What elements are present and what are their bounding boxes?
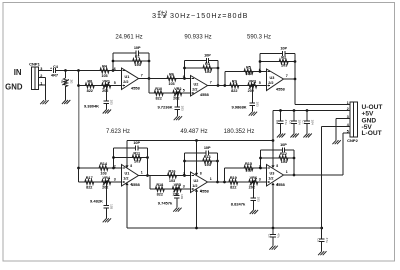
svg-text:R14: R14: [100, 162, 108, 166]
pin 2 CNP2: [347, 107, 349, 111]
wire feedback cap branch S3B: [261, 149, 295, 151]
svg-text:103: 103: [180, 194, 184, 199]
pin 3 U3 S3B: [259, 177, 261, 181]
node bypass C7: [306, 109, 309, 112]
wire R10 to VR2: [165, 92, 172, 94]
resistor R2 feedback S3T: [279, 56, 288, 68]
ground below VR cap S1T: [103, 110, 111, 114]
capacitor VR-gnd S1B: [104, 204, 114, 209]
svg-text:2: 2: [259, 164, 261, 168]
wire U3B power down: [272, 185, 274, 228]
svg-text:R9: R9: [232, 79, 237, 83]
pin 3 CNP2: [347, 115, 349, 119]
node feedback-R left S2T: [183, 67, 186, 70]
svg-text:9.3804K: 9.3804K: [84, 103, 99, 108]
label computed resistance S1B: [90, 199, 103, 204]
wire feedback left vertical U3 stage S3B: [260, 150, 262, 168]
svg-text:103: 103: [257, 197, 261, 202]
svg-text:R18: R18: [156, 183, 163, 187]
wire into R6 S2T: [160, 78, 166, 80]
trimmer VR2: [172, 87, 184, 101]
resistor R14 S1B: [97, 162, 110, 176]
wire wiper to capacitor S1T: [105, 86, 107, 102]
node -5V U3B: [272, 227, 275, 230]
pin 6 U1 S1T: [114, 67, 116, 71]
svg-text:3: 3: [347, 115, 349, 119]
wire U1B output: [139, 175, 167, 177]
wire U2B power up: [196, 141, 198, 174]
svg-text:4558: 4558: [276, 86, 286, 91]
svg-text:R8: R8: [87, 79, 92, 83]
node feedback-input S2B: [183, 174, 186, 177]
node +5V U3B: [272, 139, 275, 142]
wire feedback right vertical S3T: [294, 54, 296, 80]
svg-text:R15: R15: [245, 162, 252, 166]
svg-text:C4: C4: [53, 64, 59, 69]
svg-text:4558: 4558: [131, 85, 141, 90]
resistor R11 feedback S1B: [132, 152, 141, 164]
wire U2 output: [208, 85, 229, 87]
wire input vertical to lower row: [78, 71, 80, 169]
ground below VR cap S1B: [103, 218, 111, 222]
svg-text:C9: C9: [316, 238, 320, 242]
capacitor C4: [50, 64, 59, 77]
pin 6 U3 S3T: [259, 68, 261, 72]
pin 2 U2 S2B: [183, 172, 185, 176]
svg-text:103: 103: [256, 102, 260, 107]
svg-text:10P: 10P: [133, 141, 140, 145]
svg-text:822: 822: [87, 89, 93, 93]
capacitor feedback 10P S2T: [204, 53, 211, 63]
wire U1B power down: [126, 185, 128, 228]
label GND CNP2: [362, 117, 377, 124]
svg-text:R17: R17: [86, 176, 93, 180]
wire VR3 wiper to cap: [251, 86, 253, 104]
wire L-OUT to CNP2 pin5: [343, 132, 350, 134]
svg-text:R19: R19: [230, 176, 237, 180]
svg-text:103: 103: [134, 160, 140, 164]
svg-text:9.482K: 9.482K: [90, 199, 103, 204]
svg-text:GND: GND: [5, 83, 23, 92]
pin 1 CNP2: [347, 101, 349, 105]
wire feedback cap branch S3T: [260, 53, 295, 55]
node VR5 wiper: [175, 188, 178, 191]
svg-text:U1: U1: [124, 172, 129, 176]
wire S2 to ground: [65, 86, 67, 100]
svg-text:6: 6: [183, 75, 185, 79]
svg-text:10P: 10P: [280, 143, 287, 147]
trimmer VR4 S1B: [101, 176, 113, 190]
node feedback-R right S2B: [216, 160, 219, 163]
wire GND from CNP2 pin3: [336, 119, 350, 141]
svg-text:C7: C7: [302, 120, 306, 124]
wire R4 to op-amp S1T: [110, 70, 122, 72]
wire into R16 S2B: [161, 175, 167, 177]
svg-text:U3: U3: [269, 76, 274, 80]
capacitor below VR3: [250, 102, 260, 107]
wire feedback cap branch S2T: [185, 60, 219, 62]
capacitor feedback 10P S3B: [280, 143, 287, 153]
svg-text:R12: R12: [280, 152, 287, 156]
pin 7 U1 S1T: [141, 73, 143, 77]
pin 2 U1 S1B: [114, 164, 116, 168]
wire rail cap C8 to ground: [272, 237, 274, 246]
svg-text:103: 103: [135, 63, 141, 67]
wire VR5 wiper to cap: [176, 189, 178, 196]
ground below VR6 cap: [250, 210, 258, 214]
wire rail cap C9 to ground: [321, 242, 323, 252]
trimmer VR5: [171, 183, 183, 197]
wire U-OUT vertical: [294, 79, 296, 105]
svg-text:4558: 4558: [131, 182, 141, 187]
ground C9: [318, 251, 326, 255]
svg-text:R7: R7: [135, 55, 140, 59]
svg-text:7: 7: [141, 73, 143, 77]
svg-text:R16: R16: [169, 169, 176, 173]
ground CNP1: [40, 100, 48, 104]
op-amp U1 2/2 S1T: [122, 68, 141, 90]
svg-text:R2: R2: [281, 56, 286, 60]
wire feedback cap branch S1T: [113, 52, 149, 54]
svg-text:2/2: 2/2: [268, 81, 273, 85]
pin 1 U3 S3B: [286, 170, 288, 174]
node feedback-input S3B: [259, 167, 262, 170]
svg-text:1: 1: [141, 170, 143, 174]
wire +5V rail: [127, 140, 273, 142]
resistor R8 S1T: [84, 79, 96, 93]
resistor R19: [229, 176, 238, 190]
wire feedback left vertical U1 stage S1B: [113, 148, 115, 168]
wire into R4 S1T: [93, 70, 99, 72]
wire cap to ground VR5: [176, 198, 178, 208]
wire input to R8: [79, 85, 85, 87]
wire R17 to VR4 S1B: [96, 181, 101, 183]
wire C4 to input node: [56, 70, 99, 72]
wire bypass cap C7 to ground: [306, 124, 308, 134]
svg-text:VR5: VR5: [174, 183, 181, 187]
wire jog up to R5: [225, 72, 243, 86]
svg-text:103: 103: [205, 163, 211, 167]
wire CNP1 pin2 stub: [39, 78, 46, 86]
wire feedback right vertical S1T: [148, 53, 150, 79]
svg-text:4: 4: [130, 183, 132, 187]
wire R19 run: [228, 181, 248, 183]
wire L-OUT horizontal: [294, 174, 343, 176]
wire feedback left vertical U1 stage S1T: [112, 53, 114, 71]
wire L-OUT vertical: [342, 133, 344, 175]
svg-text:R6: R6: [169, 72, 174, 76]
svg-text:8: 8: [130, 164, 132, 168]
wire feedback resistor branch S2T: [185, 67, 219, 69]
wire feedback right vertical S2T: [217, 61, 219, 86]
wire R15 to U3B pin2: [254, 167, 267, 169]
svg-text:202: 202: [173, 96, 179, 100]
wire U2B output: [208, 181, 228, 183]
wire U1B power up: [126, 141, 128, 166]
wire VR6 to U3B pin3: [259, 181, 267, 183]
pin 3 CNP1: [40, 67, 42, 71]
svg-text:2G: 2G: [69, 79, 73, 84]
svg-text:VR6: VR6: [250, 176, 257, 180]
svg-text:VR1: VR1: [103, 79, 110, 83]
capacitor below VR6: [251, 197, 261, 202]
wire jog up to R15: [225, 168, 244, 182]
node feedback-R right S2T: [217, 67, 220, 70]
pin 6 U2 S2T: [183, 75, 185, 79]
wire VR2 to U2 pin5: [183, 92, 191, 94]
svg-text:C6: C6: [289, 120, 293, 124]
resistor R4 S1T: [99, 64, 110, 78]
pin 4 CNP2: [347, 123, 349, 127]
svg-text:3: 3: [152, 11, 156, 20]
wire VR2 wiper to cap: [176, 93, 178, 107]
svg-text:104: 104: [297, 120, 301, 125]
svg-text:R10: R10: [155, 87, 162, 91]
wire drop to R18: [150, 176, 154, 190]
svg-text:103: 103: [205, 70, 211, 74]
capacitor feedback 10P S1B: [133, 141, 140, 151]
node feedback-output S3T: [294, 78, 297, 81]
pin 1 U1 S1B: [141, 170, 143, 174]
svg-text:103: 103: [169, 179, 175, 183]
node feedback-input S1B: [112, 167, 115, 170]
wire U1 out to R10 drop: [148, 79, 150, 94]
svg-text:3: 3: [114, 177, 116, 181]
svg-text:103: 103: [281, 160, 287, 164]
pin 5 U3 S3T: [259, 81, 261, 85]
svg-text:10P: 10P: [204, 53, 211, 57]
pin 2 CNP1: [40, 74, 42, 78]
wire VR1 to op-amp S1T: [112, 85, 122, 87]
wire feedback right vertical S2B: [217, 153, 219, 182]
wire +5V from CNP2: [273, 111, 350, 166]
label 90.933 Hz: [184, 35, 211, 41]
svg-text:6: 6: [114, 67, 116, 71]
node feedback-output S1T: [148, 77, 151, 80]
wire U-OUT to CNP2 pin1: [295, 104, 350, 106]
svg-text:IN: IN: [14, 68, 22, 77]
svg-text:104: 104: [310, 120, 314, 125]
svg-text:47u: 47u: [284, 120, 288, 125]
svg-text:4: 4: [200, 189, 202, 193]
svg-text:2/2: 2/2: [192, 88, 197, 92]
wire VR3 to U3 pin5: [258, 85, 267, 87]
wire VR5 to U2B pin3: [183, 188, 191, 190]
node feedback-output S2T: [217, 84, 220, 87]
node feedback-output S3B: [293, 174, 296, 177]
svg-text:103: 103: [100, 171, 106, 175]
label computed resistance S1T: [84, 103, 99, 108]
node +5V U2B: [195, 139, 198, 142]
svg-text:90.933 Hz: 90.933 Hz: [184, 35, 211, 41]
label L-OUT: [362, 130, 382, 137]
wire -5V rail: [127, 227, 322, 229]
wire R8 to VR1 S1T: [96, 85, 101, 87]
node feedback-R left S2B: [183, 160, 186, 163]
wire R18 to VR5: [166, 188, 172, 190]
trimmer S2: [60, 78, 73, 87]
wire feedback left vertical U2 stage S2T: [184, 61, 186, 79]
wire feedback left vertical U2 stage S2B: [184, 153, 186, 176]
pin 3 U2 S2B: [183, 184, 185, 188]
ground S2: [62, 100, 70, 104]
op-amp U3 2/2 S3T: [267, 69, 286, 91]
wire S2 top: [65, 71, 67, 79]
svg-text:5: 5: [114, 81, 116, 85]
wire CNP1 pins to ground: [45, 85, 47, 100]
wire cap to ground VR2: [176, 110, 178, 117]
svg-text:4: 4: [276, 183, 278, 187]
svg-text:7: 7: [210, 80, 212, 84]
wire wiper to capacitor S1B: [105, 182, 107, 206]
wire feedback resistor branch S3T: [260, 61, 295, 63]
wire feedback resistor branch S1T: [113, 60, 149, 62]
wire input drop to R17: [79, 168, 84, 182]
svg-text:1: 1: [210, 177, 212, 181]
title text 3-dan 30Hz-150Hz=80dB: [152, 11, 249, 20]
node feedback-R left S3T: [259, 60, 262, 63]
wire feedback right vertical S3B: [293, 150, 295, 175]
svg-text:822: 822: [231, 89, 237, 93]
connector CNP2: [347, 102, 358, 143]
label 9.9868K: [231, 104, 246, 109]
svg-text:822: 822: [86, 185, 92, 189]
svg-text:822: 822: [157, 192, 163, 196]
ground below VR5 cap: [173, 208, 181, 212]
svg-text:202: 202: [102, 185, 108, 189]
svg-text:2: 2: [114, 164, 116, 168]
wire feedback left vertical U3 stage S3T: [259, 54, 261, 72]
op-amp U2 1/2 S2B: [191, 172, 210, 194]
svg-text:3: 3: [183, 184, 185, 188]
wire bypass cap C7 top: [306, 111, 308, 122]
svg-text:6: 6: [259, 68, 261, 72]
svg-text:7.623 Hz: 7.623 Hz: [106, 129, 130, 135]
capacitor feedback 10P S3T: [280, 46, 287, 56]
svg-text:30Hz~150Hz=80dB: 30Hz~150Hz=80dB: [170, 11, 249, 20]
op-amp U2 2/2 S2T: [191, 76, 210, 97]
capacitor C8: [268, 233, 281, 238]
ground C5: [277, 134, 285, 138]
ground below VR3 cap: [249, 112, 257, 116]
svg-text:10P: 10P: [204, 146, 211, 150]
svg-text:49.487 Hz: 49.487 Hz: [180, 129, 207, 135]
label 9.7236K: [157, 104, 172, 109]
svg-text:VR4: VR4: [103, 176, 111, 180]
label 7.623 Hz: [106, 129, 130, 135]
svg-text:4558: 4558: [200, 92, 210, 97]
svg-text:103: 103: [245, 72, 251, 76]
resistor R9: [230, 79, 239, 93]
wire feedback resistor branch S3B: [261, 157, 295, 159]
wire U2B power down: [196, 192, 198, 229]
svg-text:822: 822: [156, 96, 162, 100]
node bypass C6: [293, 109, 296, 112]
wire capacitor to ground S1T: [105, 104, 107, 110]
wire U1 output: [139, 78, 167, 80]
svg-text:1/2: 1/2: [192, 184, 197, 188]
wire input to R14: [79, 167, 98, 169]
pin 7 U2 S2T: [210, 80, 212, 84]
svg-text:10P: 10P: [134, 46, 141, 50]
trimmer VR6: [248, 176, 260, 190]
ground below VR2 cap: [174, 116, 182, 120]
svg-text:202: 202: [249, 185, 255, 189]
svg-text:R13: R13: [204, 155, 211, 159]
svg-text:2/2: 2/2: [123, 80, 128, 84]
svg-text:5: 5: [347, 130, 349, 134]
svg-text:9.7457k: 9.7457k: [158, 201, 173, 206]
svg-text:1: 1: [347, 101, 349, 105]
wire R5 to U3 pin6: [254, 71, 267, 73]
label 9.7457k: [158, 201, 173, 206]
wire U3 output: [284, 78, 296, 80]
node feedback-input S2T: [183, 77, 186, 80]
node VR6 wiper: [252, 181, 255, 184]
node -5V U2B: [195, 227, 198, 230]
node feedback-R right S1T: [148, 60, 151, 63]
label 24.961 Hz: [115, 35, 142, 41]
svg-text:8: 8: [200, 172, 202, 176]
svg-text:4R7: 4R7: [51, 73, 58, 78]
wire cap to ground VR6: [252, 201, 254, 210]
label 8.8247k: [231, 202, 246, 207]
svg-text:2: 2: [183, 172, 185, 176]
op-amp U3 1/2 S3B: [267, 164, 286, 187]
pin 7 U3 S3T: [286, 74, 288, 78]
wire U3B output: [284, 174, 295, 176]
node feedback-R right S1B: [146, 156, 149, 159]
svg-text:3: 3: [259, 177, 261, 181]
ground C6: [290, 134, 298, 138]
resistor R15: [243, 162, 254, 173]
svg-text:9.9868K: 9.9868K: [231, 104, 246, 109]
node feedback-R right S3B: [293, 157, 296, 160]
svg-text:103: 103: [110, 100, 114, 105]
svg-text:103: 103: [245, 168, 251, 172]
svg-text:VR2: VR2: [174, 87, 181, 91]
pin 5 U2 S2T: [183, 88, 185, 92]
svg-text:CNP1: CNP1: [29, 62, 40, 67]
svg-text:+: +: [50, 66, 52, 70]
capacitor C6: [289, 120, 302, 125]
svg-text:R11: R11: [133, 152, 140, 156]
wire CNP1 pin3 to C4: [39, 70, 53, 72]
wire VR4 to op-amp S1B: [112, 181, 122, 183]
node feedback-output S2B: [216, 181, 219, 184]
node bypass C5: [279, 109, 282, 112]
label GND: [5, 83, 23, 92]
label IN: [14, 68, 22, 77]
svg-text:1: 1: [286, 170, 288, 174]
node feedback-R left S1B: [112, 156, 115, 159]
svg-text:103: 103: [110, 204, 114, 209]
svg-text:180.352 Hz: 180.352 Hz: [224, 129, 255, 135]
node feedback-R left S3B: [259, 157, 262, 160]
svg-text:5: 5: [183, 88, 185, 92]
svg-text:202: 202: [102, 89, 108, 93]
svg-text:C8: C8: [268, 234, 272, 238]
resistor R18: [154, 183, 166, 197]
label 49.487 Hz: [180, 129, 207, 135]
svg-text:S2: S2: [60, 80, 64, 84]
svg-text:24.961 Hz: 24.961 Hz: [115, 35, 142, 41]
capacitor below VR2: [175, 106, 185, 111]
svg-text:47u: 47u: [325, 238, 329, 243]
svg-text:C5: C5: [275, 120, 279, 124]
node feedback-output S1B: [146, 174, 149, 177]
svg-text:L-OUT: L-OUT: [362, 130, 382, 137]
